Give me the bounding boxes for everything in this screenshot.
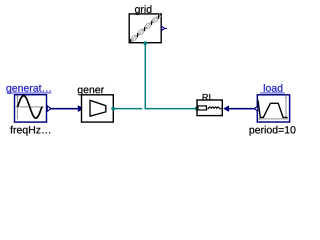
- node RL left pin (teal dot): [195, 107, 199, 111]
- label RL: [203, 94, 214, 100]
- node grid bottom (teal dot): [143, 41, 147, 45]
- label load underline: [260, 92, 284, 94]
- wire inductor to pin: [219, 108, 222, 110]
- load block (box): [257, 95, 289, 122]
- node gener output (teal dot): [111, 107, 115, 111]
- load icon y-axis (right side): [285, 95, 287, 119]
- wire grid down to bus: [145, 43, 196, 108]
- load icon trapezoid curve: [258, 100, 288, 117]
- gener icon trapezoid: [90, 100, 106, 116]
- grid icon wave: [131, 14, 162, 42]
- label grid: [135, 5, 151, 15]
- wire sine to gener: [50, 108, 79, 110]
- label freqHz...: [10, 126, 50, 136]
- label gener: [78, 88, 104, 96]
- resistor in RL: [198, 106, 207, 110]
- wire resistor to inductor: [206, 108, 208, 110]
- sine icon curve: [18, 96, 42, 118]
- arrowhead into gener: [78, 105, 85, 112]
- sine icon x-axis: [16, 106, 45, 108]
- grid block (box): [129, 14, 161, 43]
- label generat...: [6, 85, 50, 94]
- sine source block generat (box): [15, 95, 47, 122]
- load icon x-axis: [257, 118, 288, 120]
- label load: [264, 84, 282, 92]
- RL block (box): [197, 100, 222, 116]
- grid icon diagonal: [131, 15, 160, 41]
- inductor in RL: [209, 107, 220, 109]
- grid output connector: [162, 26, 167, 30]
- label period=10: [250, 126, 296, 136]
- sine output connector: [47, 106, 51, 112]
- wire load to RL: [229, 108, 258, 110]
- sine icon y-axis: [16, 95, 18, 120]
- wire gener to junction: [113, 108, 142, 110]
- load left connector: [254, 106, 257, 111]
- gener block (box): [82, 95, 114, 122]
- arrowhead into RL (pointing left): [223, 105, 229, 112]
- label generat underline: [7, 92, 51, 94]
